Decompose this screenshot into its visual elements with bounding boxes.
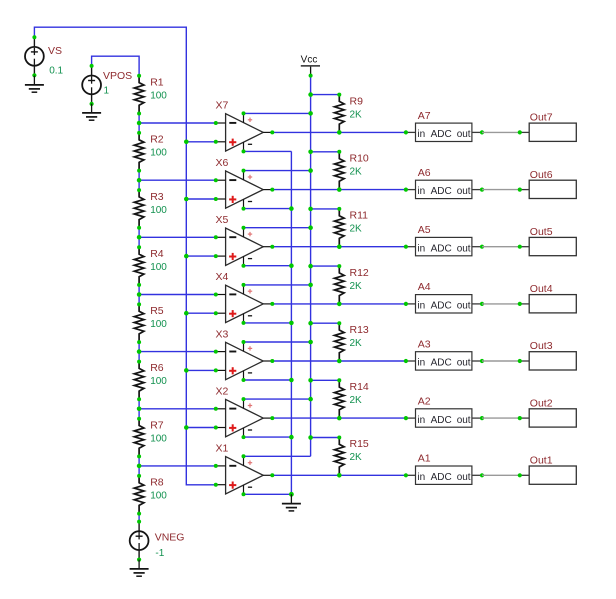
resistor R6 100 <box>134 362 167 400</box>
svg-text:100: 100 <box>150 262 167 273</box>
wire X6 output to ADC A6 input <box>272 189 406 191</box>
svg-text:R13: R13 <box>350 324 369 336</box>
resistor R7 100 <box>134 419 167 457</box>
svg-text:out: out <box>457 186 471 197</box>
wire X7 V+ pin to Vcc rail <box>244 112 311 114</box>
wire ladder segment R5/R6 <box>138 342 140 361</box>
svg-text:100: 100 <box>150 491 167 502</box>
node negative rail to X5 V- <box>289 263 294 268</box>
svg-text:1: 1 <box>104 86 110 97</box>
resistor R15 2K <box>335 438 369 476</box>
wire Vcc rail branch to R9 <box>311 94 340 96</box>
wire R8 to VNEG <box>138 514 140 522</box>
svg-text:2K: 2K <box>350 395 363 406</box>
output box Out7 <box>482 112 576 142</box>
wire VS line to X7 plus input <box>186 141 216 143</box>
svg-text:out: out <box>457 358 471 369</box>
svg-text:2K: 2K <box>350 109 363 120</box>
svg-text:R5: R5 <box>150 305 164 317</box>
wire ladder segment R6/R7 <box>138 399 140 419</box>
ADC block A4 <box>404 281 484 313</box>
svg-text:Out3: Out3 <box>530 340 553 352</box>
wire negative supply rail vertical <box>290 151 292 494</box>
svg-text:out: out <box>457 301 471 312</box>
svg-text:100: 100 <box>150 319 167 330</box>
resistor R10 2K <box>335 152 369 190</box>
wire ladder junction to X4 minus input <box>139 294 216 296</box>
wire X4 output to ADC A4 input <box>272 303 406 305</box>
svg-text:out: out <box>457 129 471 140</box>
wire ladder segment R1/R2 <box>138 114 140 133</box>
node VS line tap X3 <box>184 368 189 373</box>
wire X3 V+ pin to Vcc rail <box>244 341 311 343</box>
svg-text:VPOS: VPOS <box>103 70 132 82</box>
ADC block A3 <box>404 338 484 370</box>
svg-text:in: in <box>417 358 425 369</box>
svg-text:2K: 2K <box>350 452 363 463</box>
resistor R4 100 <box>134 247 167 285</box>
output box Out2 <box>482 397 576 427</box>
node Vcc rail to X5 V+ <box>308 225 313 230</box>
svg-text:X7: X7 <box>216 100 229 112</box>
svg-text:in: in <box>417 243 425 254</box>
svg-text:100: 100 <box>150 433 167 444</box>
Vcc power terminal <box>301 55 320 78</box>
svg-text:VNEG: VNEG <box>155 531 185 543</box>
wire X7 output to ADC A7 input <box>272 131 406 133</box>
node Vcc rail to R10 branch <box>308 150 313 155</box>
node ladder tap 1 <box>137 121 142 126</box>
wire X1 output to ADC A1 input <box>272 474 406 476</box>
voltage source VPOS 1 <box>82 64 132 106</box>
node R9 pins <box>337 93 342 135</box>
node: R2 pins <box>137 131 141 173</box>
svg-text:X5: X5 <box>216 214 229 226</box>
wire ladder junction to X1 minus input <box>139 465 216 467</box>
wire VS top feed to comparator + column <box>34 27 215 485</box>
op-amp X5 <box>214 214 274 268</box>
resistor R12 2K <box>335 266 369 304</box>
node R13 pins <box>337 321 342 363</box>
ADC block A7 <box>404 110 484 142</box>
svg-text:R15: R15 <box>350 438 369 450</box>
svg-text:A5: A5 <box>418 224 431 236</box>
svg-text:R9: R9 <box>350 95 364 107</box>
node Vcc rail to R12 branch <box>308 264 313 269</box>
wire X5 V- pin to negative rail <box>244 265 292 267</box>
svg-text:Vcc: Vcc <box>301 55 318 66</box>
svg-text:ADC: ADC <box>431 243 452 254</box>
svg-text:in: in <box>417 129 425 140</box>
output box Out5 <box>482 226 576 256</box>
svg-text:A2: A2 <box>418 396 431 408</box>
node Vcc rail to X7 V+ <box>308 111 313 116</box>
wire VS line to X4 plus input <box>186 312 216 314</box>
op-amp X1 <box>214 443 274 497</box>
svg-text:ADC: ADC <box>431 186 452 197</box>
svg-text:X3: X3 <box>216 328 229 340</box>
svg-text:R11: R11 <box>350 210 369 222</box>
ground below VNEG <box>130 560 149 577</box>
svg-text:in: in <box>417 472 425 483</box>
svg-text:in: in <box>417 186 425 197</box>
wire Vcc rail vertical <box>310 76 312 457</box>
node Vcc rail to R9 branch <box>308 92 313 97</box>
svg-text:100: 100 <box>150 148 167 159</box>
wire ladder junction to X2 minus input <box>139 408 216 410</box>
op-amp X3 <box>214 328 274 382</box>
wire VS line to X3 plus input <box>186 369 216 371</box>
node ladder tap 4 <box>137 292 142 297</box>
svg-text:ADC: ADC <box>431 415 452 426</box>
svg-text:2K: 2K <box>350 281 363 292</box>
op-amp X2 <box>214 385 274 439</box>
node Vcc rail to X2 V+ <box>308 397 313 402</box>
svg-text:R8: R8 <box>150 477 164 489</box>
svg-text:Out4: Out4 <box>530 283 553 295</box>
node: R1 pins <box>137 74 141 116</box>
svg-text:in: in <box>417 415 425 426</box>
node R12 pins <box>337 264 342 306</box>
svg-text:2K: 2K <box>350 224 363 235</box>
node: R8 pins <box>137 474 141 516</box>
ADC block A6 <box>404 167 484 199</box>
svg-text:-1: -1 <box>155 548 164 559</box>
node negative rail at ground <box>289 492 294 497</box>
svg-text:in: in <box>417 301 425 312</box>
resistor R1 100 <box>134 76 167 114</box>
resistor R8 100 <box>134 476 167 514</box>
node: R5 pins <box>137 302 141 344</box>
node ladder tap 2 <box>137 178 142 183</box>
svg-text:Out6: Out6 <box>530 169 553 181</box>
svg-text:0.1: 0.1 <box>49 65 63 76</box>
svg-text:Out7: Out7 <box>530 112 553 124</box>
op-amp X4 <box>214 271 274 325</box>
node ladder tap 7 <box>137 464 142 469</box>
wire ladder segment R4/R5 <box>138 285 140 305</box>
svg-text:ADC: ADC <box>431 358 452 369</box>
svg-text:Out5: Out5 <box>530 226 553 238</box>
node Vcc rail to R13 branch <box>308 321 313 326</box>
svg-text:A7: A7 <box>418 110 431 122</box>
wire VS line to X6 plus input <box>186 198 216 200</box>
wire ladder segment R3/R4 <box>138 228 140 247</box>
svg-text:X6: X6 <box>216 157 229 169</box>
wire X5 output to ADC A5 input <box>272 246 406 248</box>
wire VS line to X2 plus input <box>186 427 216 429</box>
node R14 pins <box>337 378 342 420</box>
wire Vcc rail branch to R13 <box>311 322 340 324</box>
resistor R13 2K <box>335 323 369 361</box>
svg-text:2K: 2K <box>350 166 363 177</box>
svg-text:R6: R6 <box>150 362 164 374</box>
output box Out4 <box>482 283 576 313</box>
wire X2 output to ADC A2 input <box>272 417 406 419</box>
wire Vcc rail branch to R14 <box>311 379 340 381</box>
svg-text:ADC: ADC <box>431 301 452 312</box>
wire X3 output to ADC A3 input <box>272 360 406 362</box>
node VS line tap X4 <box>184 311 189 316</box>
svg-text:R7: R7 <box>150 419 164 431</box>
svg-text:ADC: ADC <box>431 129 452 140</box>
wire ladder segment R2/R3 <box>138 171 140 191</box>
node ladder tap 3 <box>137 235 142 240</box>
svg-text:VS: VS <box>48 45 62 57</box>
svg-text:100: 100 <box>150 91 167 102</box>
wire ladder segment R7/R8 <box>138 456 140 475</box>
node Vcc rail to X3 V+ <box>308 340 313 345</box>
wire X4 V+ pin to Vcc rail <box>244 284 311 286</box>
wire Vcc rail branch to R12 <box>311 265 340 267</box>
svg-text:R14: R14 <box>350 381 369 393</box>
wire Vcc rail branch to R15 <box>311 437 340 439</box>
svg-text:X2: X2 <box>216 385 229 397</box>
ADC block A1 <box>404 453 484 485</box>
node VS line tap X5 <box>184 254 189 259</box>
wire ladder junction to X5 minus input <box>139 236 216 238</box>
svg-text:2K: 2K <box>350 338 363 349</box>
svg-text:A3: A3 <box>418 338 431 350</box>
output box Out6 <box>482 169 576 199</box>
svg-text:X1: X1 <box>216 443 229 455</box>
svg-text:R1: R1 <box>150 77 164 89</box>
svg-text:100: 100 <box>150 205 167 216</box>
wire ladder junction to X3 minus input <box>139 351 216 353</box>
wire Vcc rail branch to R10 <box>311 151 340 153</box>
resistor R11 2K <box>335 209 369 247</box>
wire Vcc rail branch to R11 <box>311 208 340 210</box>
node Vcc rail to X6 V+ <box>308 168 313 173</box>
ADC block A2 <box>404 396 484 428</box>
wire X3 V- pin to negative rail <box>244 379 292 381</box>
resistor R5 100 <box>134 304 167 342</box>
svg-text:A6: A6 <box>418 167 431 179</box>
resistor R9 2K <box>335 95 364 133</box>
svg-text:X4: X4 <box>216 271 229 283</box>
node Vcc rail to X4 V+ <box>308 283 313 288</box>
svg-text:R12: R12 <box>350 267 369 279</box>
svg-text:R2: R2 <box>150 134 164 146</box>
node negative rail to X4 V- <box>289 321 294 326</box>
svg-text:out: out <box>457 243 471 254</box>
node Vcc rail to R15 branch <box>308 435 313 440</box>
node R15 pins <box>337 436 342 478</box>
resistor R3 100 <box>134 190 167 228</box>
ground of negative rail <box>282 494 301 511</box>
wire X2 V- pin to negative rail <box>244 436 292 438</box>
svg-text:100: 100 <box>150 376 167 387</box>
op-amp X6 <box>214 157 274 211</box>
wire ladder junction to X6 minus input <box>139 179 216 181</box>
node VS line tap X2 <box>184 425 189 430</box>
node: R3 pins <box>137 188 141 230</box>
node R11 pins <box>337 207 342 249</box>
ground below VS <box>25 76 44 93</box>
ground below VPOS <box>82 104 101 121</box>
output box Out1 <box>482 455 576 485</box>
node negative rail to X2 V- <box>289 435 294 440</box>
svg-text:Out1: Out1 <box>530 455 553 467</box>
output box Out3 <box>482 340 576 370</box>
svg-text:R4: R4 <box>150 248 164 260</box>
node: R7 pins <box>137 417 141 459</box>
op-amp X7 <box>214 100 274 154</box>
wire ladder junction to X7 minus input <box>139 122 216 124</box>
wire X4 V- pin to negative rail <box>244 322 292 324</box>
svg-text:A4: A4 <box>418 281 431 293</box>
voltage source VNEG -1 <box>130 520 185 562</box>
svg-text:A1: A1 <box>418 453 431 465</box>
wire X6 V- pin to negative rail <box>244 208 292 210</box>
node ladder tap 5 <box>137 349 142 354</box>
node: R6 pins <box>137 360 141 402</box>
wire X1 V- pin to negative rail <box>244 493 292 495</box>
svg-text:out: out <box>457 472 471 483</box>
node VS line tap X6 <box>184 197 189 202</box>
voltage source VS 0.1 <box>25 35 64 77</box>
wire VS line to X5 plus input <box>186 255 216 257</box>
node ladder tap 6 <box>137 407 142 412</box>
svg-text:R3: R3 <box>150 191 164 203</box>
wire VPOS to ladder top <box>92 56 140 76</box>
ADC block A5 <box>404 224 484 256</box>
node negative rail to X3 V- <box>289 378 294 383</box>
wire X7 V- pin to negative rail <box>244 150 292 152</box>
svg-text:R10: R10 <box>350 152 369 164</box>
node: R4 pins <box>137 245 141 287</box>
wire X2 V+ pin to Vcc rail <box>244 398 311 400</box>
wire X5 V+ pin to Vcc rail <box>244 227 311 229</box>
node R10 pins <box>337 150 342 192</box>
node Vcc rail to R11 branch <box>308 207 313 212</box>
svg-text:ADC: ADC <box>431 472 452 483</box>
resistor R2 100 <box>134 133 167 171</box>
resistor R14 2K <box>335 380 369 418</box>
wire X6 V+ pin to Vcc rail <box>244 170 311 172</box>
svg-text:out: out <box>457 415 471 426</box>
wire X1 V+ pin to Vcc rail <box>244 455 311 457</box>
node Vcc rail to R14 branch <box>308 378 313 383</box>
node negative rail to X6 V- <box>289 206 294 211</box>
node VS line tap X7 <box>184 140 189 145</box>
svg-text:Out2: Out2 <box>530 397 553 409</box>
